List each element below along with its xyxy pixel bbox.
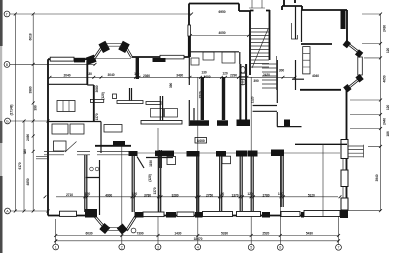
svg-text:4050: 4050 <box>219 31 226 35</box>
svg-text:1370: 1370 <box>153 187 157 194</box>
svg-text:3080: 3080 <box>95 85 99 92</box>
svg-text:5.000: 5.000 <box>197 139 205 143</box>
svg-text:2430: 2430 <box>383 25 387 32</box>
svg-text:3430: 3430 <box>176 74 183 78</box>
svg-text:2520: 2520 <box>262 231 269 235</box>
svg-text:(120): (120) <box>101 92 105 99</box>
svg-text:120: 120 <box>386 48 390 53</box>
svg-text:3280: 3280 <box>172 193 179 197</box>
svg-text:5330: 5330 <box>221 231 228 235</box>
svg-text:1120: 1120 <box>251 96 255 103</box>
svg-text:6950: 6950 <box>219 10 226 14</box>
svg-text:390: 390 <box>169 83 173 88</box>
svg-text:5: 5 <box>250 246 252 250</box>
svg-text:5120: 5120 <box>308 193 315 197</box>
svg-text:2040: 2040 <box>64 74 71 78</box>
svg-text:4040: 4040 <box>312 74 319 78</box>
svg-text:3: 3 <box>157 245 159 249</box>
svg-text:2: 2 <box>121 245 123 249</box>
svg-text:2780: 2780 <box>263 193 270 197</box>
svg-text:390: 390 <box>253 79 258 83</box>
svg-text:2490: 2490 <box>26 134 30 141</box>
svg-text:2440: 2440 <box>383 118 387 125</box>
svg-text:1150: 1150 <box>149 160 153 167</box>
svg-text:120: 120 <box>386 105 390 110</box>
svg-text:3940: 3940 <box>375 174 379 181</box>
svg-text:2710: 2710 <box>66 193 73 197</box>
svg-text:120: 120 <box>247 192 252 196</box>
svg-text:4: 4 <box>197 245 199 249</box>
svg-text:6018: 6018 <box>28 33 32 40</box>
svg-text:120: 120 <box>222 71 227 75</box>
svg-text:1: 1 <box>55 245 57 249</box>
svg-text:(17148): (17148) <box>10 105 14 116</box>
svg-text:6170: 6170 <box>18 162 22 169</box>
svg-text:18670: 18670 <box>194 237 203 241</box>
svg-text:7390: 7390 <box>137 231 144 235</box>
svg-text:6: 6 <box>279 246 281 250</box>
svg-text:1370: 1370 <box>95 113 99 120</box>
svg-text:2750: 2750 <box>206 193 213 197</box>
svg-text:186: 186 <box>386 131 390 136</box>
svg-text:390: 390 <box>33 105 37 110</box>
svg-text:6030: 6030 <box>86 231 93 235</box>
svg-text:4850: 4850 <box>26 178 30 185</box>
svg-text:3980: 3980 <box>28 86 32 93</box>
svg-text:2420: 2420 <box>263 73 270 77</box>
svg-text:1370: 1370 <box>232 193 239 197</box>
svg-text:4050: 4050 <box>383 75 387 82</box>
svg-text:380: 380 <box>23 149 27 154</box>
svg-text:(120): (120) <box>148 174 152 181</box>
svg-text:3780: 3780 <box>144 193 151 197</box>
svg-text:2290: 2290 <box>230 74 237 78</box>
svg-text:4000: 4000 <box>105 193 112 197</box>
svg-text:7: 7 <box>338 246 340 250</box>
svg-text:Г: Г <box>6 12 8 16</box>
svg-text:2360: 2360 <box>143 74 150 78</box>
svg-text:5430: 5430 <box>306 231 313 235</box>
svg-text:1430: 1430 <box>174 231 181 235</box>
svg-text:1400: 1400 <box>204 75 211 79</box>
svg-text:120: 120 <box>85 192 90 196</box>
svg-text:3040: 3040 <box>108 73 115 77</box>
svg-text:300: 300 <box>279 69 284 73</box>
